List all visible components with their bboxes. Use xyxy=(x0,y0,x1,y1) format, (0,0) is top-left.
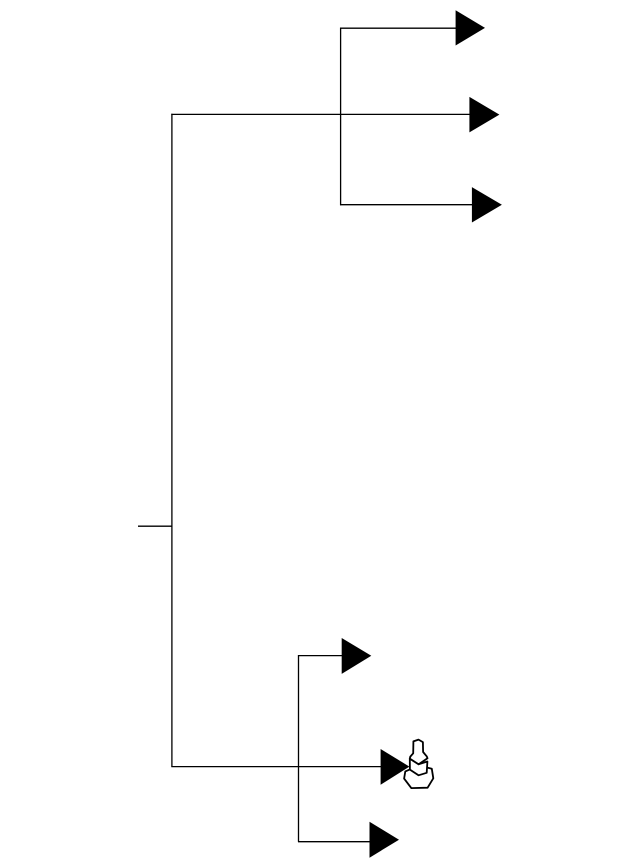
root stub wire xyxy=(138,525,172,527)
arrowhead A1 xyxy=(456,10,485,45)
lower-top branch wire xyxy=(298,655,343,657)
arrowhead A3 xyxy=(472,187,502,222)
lower-bottom branch wire xyxy=(298,841,371,843)
lower branch horizontal wire xyxy=(171,766,381,768)
upper branch horizontal wire xyxy=(171,113,470,115)
arrowhead A5 xyxy=(381,749,410,785)
bolt cylinder body xyxy=(410,759,428,776)
upper connector vertical wire xyxy=(340,28,342,206)
arrowhead A2 xyxy=(469,97,499,132)
bolt shaft xyxy=(410,740,428,765)
bolt hex nut base xyxy=(404,766,433,789)
arrowhead A6 xyxy=(370,822,400,858)
upper-top branch wire xyxy=(340,27,457,29)
arrowhead A4 xyxy=(342,638,372,674)
lower connector vertical wire xyxy=(298,655,300,842)
bolt icon xyxy=(404,740,433,789)
upper-bottom branch wire xyxy=(340,204,473,206)
main trunk vertical wire xyxy=(171,114,173,767)
